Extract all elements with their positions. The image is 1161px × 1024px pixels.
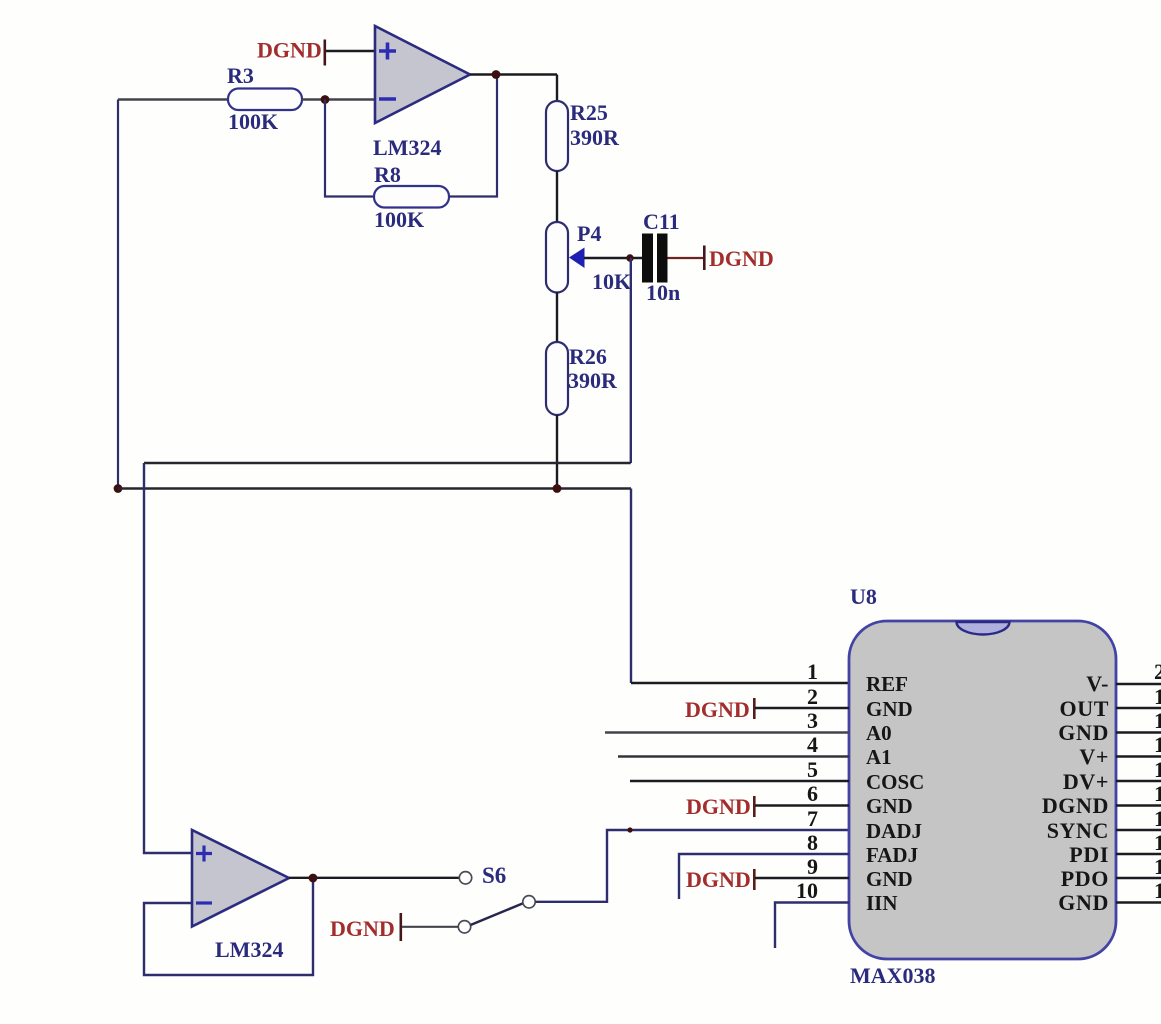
svg-text:GND: GND bbox=[866, 794, 913, 818]
svg-text:15: 15 bbox=[1154, 781, 1161, 806]
svg-text:LM324: LM324 bbox=[373, 135, 441, 160]
svg-text:3: 3 bbox=[807, 708, 818, 733]
wire R3 to - input bbox=[302, 98, 376, 100]
wire P4 bottom to R26 bbox=[556, 292, 558, 343]
wire DGND to S6 throw bbox=[402, 926, 458, 928]
svg-text:A1: A1 bbox=[866, 745, 892, 769]
svg-text:13: 13 bbox=[1154, 830, 1161, 855]
wire R26 down to bus bbox=[556, 415, 558, 489]
svg-text:7: 7 bbox=[807, 806, 818, 831]
node (junction R3 / feedback) bbox=[321, 95, 330, 104]
svg-text:C11: C11 bbox=[643, 209, 680, 234]
svg-text:4: 4 bbox=[807, 732, 818, 757]
svg-text:A0: A0 bbox=[866, 721, 892, 745]
svg-text:19: 19 bbox=[1154, 684, 1161, 709]
svg-text:REF: REF bbox=[866, 672, 908, 696]
svg-text:1: 1 bbox=[807, 659, 818, 684]
node wiper junction bbox=[626, 254, 633, 261]
wire A1 pin 4 bbox=[618, 755, 849, 757]
svg-text:S6: S6 bbox=[482, 863, 506, 888]
svg-text:9: 9 bbox=[807, 854, 818, 879]
node R26 on bus bbox=[553, 484, 562, 493]
wire C11 to DGND bbox=[668, 257, 704, 259]
wire feedback U-B bbox=[144, 878, 313, 975]
right pin wires bbox=[1116, 684, 1161, 903]
svg-text:100K: 100K bbox=[374, 207, 424, 232]
right pin numbers bbox=[1154, 659, 1161, 903]
svg-text:5: 5 bbox=[807, 757, 818, 782]
capacitor C11 bbox=[642, 209, 680, 305]
svg-text:10: 10 bbox=[796, 878, 818, 903]
svg-text:P4: P4 bbox=[577, 221, 601, 246]
resistor R8 bbox=[374, 162, 449, 232]
svg-text:DGND: DGND bbox=[330, 916, 395, 941]
resistor R3 bbox=[227, 63, 302, 134]
svg-text:PDO: PDO bbox=[1061, 866, 1109, 891]
svg-text:390R: 390R bbox=[570, 125, 620, 150]
svg-text:6: 6 bbox=[807, 781, 818, 806]
svg-text:8: 8 bbox=[807, 830, 818, 855]
switch S6 bbox=[458, 863, 535, 933]
svg-text:DGND: DGND bbox=[1042, 793, 1109, 818]
wire R8 to output bbox=[449, 75, 497, 197]
node output U-A bbox=[492, 70, 501, 79]
pin 6 DGND symbol bbox=[686, 794, 849, 819]
wire wiper junction down to line1 bbox=[630, 258, 632, 463]
svg-text:390R: 390R bbox=[568, 368, 618, 393]
node DGND (top, + input of U-A) bbox=[257, 38, 326, 66]
svg-text:GND: GND bbox=[866, 697, 913, 721]
svg-text:10K: 10K bbox=[592, 269, 631, 294]
svg-text:DV+: DV+ bbox=[1063, 769, 1109, 794]
wire feedback: - node down to R8 bbox=[325, 100, 374, 197]
svg-text:17: 17 bbox=[1154, 732, 1161, 757]
svg-text:OUT: OUT bbox=[1060, 696, 1109, 721]
wire left net to R3 bbox=[118, 98, 228, 100]
op-amp U-A (LM324) bbox=[373, 26, 470, 160]
svg-text:GND: GND bbox=[1058, 720, 1109, 745]
wire FADJ pin 8 bbox=[679, 854, 849, 899]
right pin names bbox=[1042, 671, 1109, 915]
svg-text:GND: GND bbox=[1058, 890, 1109, 915]
svg-text:100K: 100K bbox=[228, 109, 278, 134]
left pin names bbox=[866, 672, 924, 915]
svg-text:COSC: COSC bbox=[866, 770, 924, 794]
wire COSC pin 5 bbox=[630, 780, 849, 782]
wire output of U-A bbox=[470, 73, 557, 75]
wire DGND to + input bbox=[326, 50, 376, 52]
pin 9 DGND symbol bbox=[686, 867, 849, 892]
resistor R25 bbox=[546, 100, 620, 171]
svg-text:FADJ: FADJ bbox=[866, 843, 918, 867]
svg-text:SYNC: SYNC bbox=[1047, 818, 1109, 843]
potentiometer P4 bbox=[546, 221, 631, 294]
svg-text:U8: U8 bbox=[850, 584, 877, 609]
svg-text:LM324: LM324 bbox=[215, 937, 283, 962]
wire bus line2 (horizontal) bbox=[118, 487, 631, 489]
svg-text:DGND: DGND bbox=[685, 697, 750, 722]
op-amp U-B (LM324) bbox=[192, 830, 289, 962]
wire R25 to P4 bbox=[556, 171, 558, 223]
node stray junction on DADJ wire bbox=[627, 827, 632, 832]
node DGND (S6) bbox=[330, 913, 402, 941]
wire down to R25 bbox=[556, 75, 558, 103]
svg-text:R3: R3 bbox=[227, 63, 254, 88]
svg-text:DGND: DGND bbox=[257, 38, 322, 63]
pin 2 DGND symbol bbox=[685, 697, 849, 722]
svg-text:10n: 10n bbox=[646, 280, 680, 305]
node left bus junction bbox=[114, 484, 123, 493]
wire bus line1 (horizontal) bbox=[144, 462, 631, 464]
wire line2 corner down to REF bbox=[630, 489, 632, 684]
svg-text:V-: V- bbox=[1086, 671, 1109, 696]
wire S6 common to DADJ pin 7 bbox=[536, 830, 850, 902]
svg-text:14: 14 bbox=[1154, 806, 1161, 831]
svg-text:18: 18 bbox=[1154, 708, 1161, 733]
svg-text:16: 16 bbox=[1154, 757, 1161, 782]
svg-text:DGND: DGND bbox=[686, 794, 751, 819]
svg-text:MAX038: MAX038 bbox=[850, 963, 936, 988]
IC U8 body bbox=[849, 584, 1116, 988]
wire wiper to C11 bbox=[584, 257, 642, 259]
wire A0 pin 3 bbox=[605, 731, 849, 733]
svg-text:V+: V+ bbox=[1079, 744, 1109, 769]
svg-text:2: 2 bbox=[807, 684, 818, 709]
svg-text:R8: R8 bbox=[374, 162, 401, 187]
svg-text:IIN: IIN bbox=[866, 891, 898, 915]
svg-text:DGND: DGND bbox=[709, 246, 774, 271]
svg-text:12: 12 bbox=[1154, 854, 1161, 879]
wire left vertical from R3 down bbox=[117, 100, 119, 489]
svg-text:11: 11 bbox=[1154, 878, 1161, 903]
node output U-B bbox=[309, 874, 318, 883]
svg-text:20: 20 bbox=[1154, 659, 1161, 684]
wire output U-B to switch bbox=[289, 877, 459, 879]
wire IIN pin 10 bbox=[775, 903, 849, 949]
svg-text:GND: GND bbox=[866, 867, 913, 891]
resistor R26 bbox=[546, 342, 618, 415]
svg-text:DADJ: DADJ bbox=[866, 819, 922, 843]
svg-text:DGND: DGND bbox=[686, 867, 751, 892]
wire line1 down to U-B + input bbox=[144, 463, 192, 853]
svg-text:R25: R25 bbox=[570, 100, 608, 125]
node DGND (C11) bbox=[703, 246, 774, 272]
svg-text:R26: R26 bbox=[569, 344, 607, 369]
svg-text:PDI: PDI bbox=[1069, 842, 1109, 867]
